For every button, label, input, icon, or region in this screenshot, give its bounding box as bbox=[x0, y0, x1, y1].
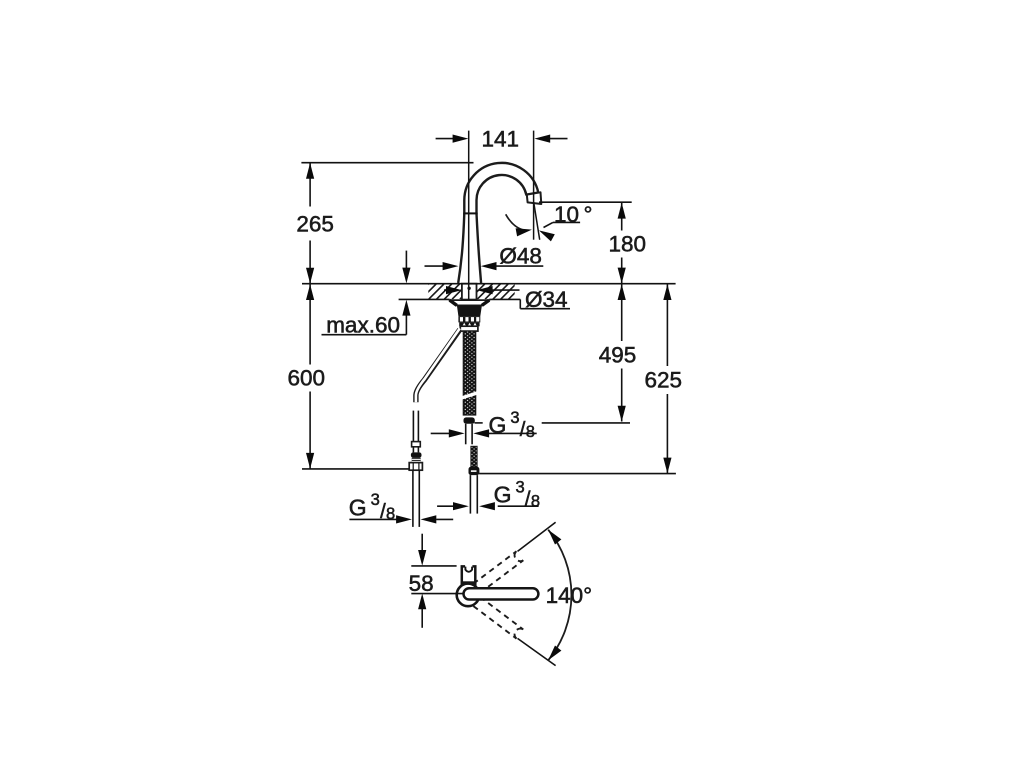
O48 dim arrows bbox=[425, 265, 444, 267]
10deg curved leader bbox=[506, 214, 523, 230]
58 dim bbox=[421, 534, 423, 551]
600 dim bbox=[309, 284, 311, 364]
svg-text:max.60: max.60 bbox=[326, 313, 400, 338]
mounting shank bbox=[462, 284, 477, 300]
svg-text:G: G bbox=[349, 494, 367, 520]
180 dim bbox=[621, 203, 623, 231]
265 dim bbox=[309, 164, 311, 207]
495 dim bbox=[621, 284, 623, 341]
left connector: compression nut bbox=[409, 463, 422, 471]
G3/8 upper dim bbox=[431, 432, 450, 434]
svg-text:3: 3 bbox=[371, 490, 380, 509]
second hose braid bbox=[471, 446, 477, 467]
valve body slot bbox=[465, 567, 472, 572]
hose break gap bbox=[462, 391, 478, 400]
mounting cone (black) bbox=[457, 305, 482, 316]
left connector: olive (black) bbox=[411, 452, 422, 457]
mounting nut checker band bbox=[458, 316, 480, 322]
escutcheon flange bbox=[450, 300, 490, 305]
second hose nipple tube bbox=[469, 475, 471, 513]
counter underside line right bbox=[489, 298, 520, 300]
625 dim bbox=[666, 284, 668, 366]
pivot circle bbox=[457, 584, 480, 607]
svg-text:3: 3 bbox=[515, 477, 524, 496]
svg-text:Ø48: Ø48 bbox=[499, 244, 542, 269]
O34 underline bbox=[520, 308, 570, 310]
10 deg tilted line bbox=[534, 203, 540, 240]
svg-text:3: 3 bbox=[510, 408, 519, 427]
faucet body cone bbox=[458, 214, 481, 283]
svg-text:180: 180 bbox=[609, 232, 647, 257]
svg-text:G: G bbox=[494, 482, 512, 508]
left connector: threaded section bbox=[412, 458, 421, 463]
O34 dim arrows bbox=[444, 289, 451, 291]
countertop hatch left of shank bbox=[413, 284, 531, 299]
left tube below break bbox=[412, 411, 414, 442]
10deg underline leader bbox=[553, 221, 580, 223]
G3/8 left dim bbox=[349, 518, 397, 520]
faucet spout gooseneck bbox=[464, 163, 538, 214]
counter underside line left bbox=[399, 298, 450, 300]
180 ext line at outlet level bbox=[539, 201, 632, 203]
spout/body joint line bbox=[463, 212, 477, 214]
141 dim line + arrows bbox=[436, 138, 454, 140]
countertop line bbox=[302, 283, 676, 285]
dashed lever position up bbox=[473, 551, 523, 593]
600 bottom ext line bbox=[302, 468, 409, 470]
svg-text:8: 8 bbox=[531, 492, 540, 511]
58 lower ext line bbox=[411, 593, 464, 595]
svg-text:8: 8 bbox=[526, 422, 535, 441]
svg-text:600: 600 bbox=[288, 366, 326, 391]
svg-text:Ø34: Ø34 bbox=[525, 287, 568, 312]
castellated band bbox=[459, 322, 479, 326]
valve body base band bbox=[461, 581, 476, 585]
aerator outlet bbox=[527, 192, 542, 204]
G3/8 right dim bbox=[437, 505, 453, 507]
58 ext lines bbox=[411, 565, 456, 567]
top extension line (spout top level) bbox=[301, 162, 473, 164]
svg-text:141: 141 bbox=[482, 127, 520, 152]
svg-text:625: 625 bbox=[645, 368, 683, 393]
hose nipple tube bbox=[465, 424, 467, 445]
extension line: faucet centerline bbox=[468, 131, 470, 300]
svg-text:265: 265 bbox=[296, 212, 334, 237]
495 ext line (hose connector level) bbox=[475, 422, 483, 424]
second hose connector bbox=[469, 467, 480, 475]
625 bottom ext line bbox=[479, 473, 676, 475]
dashed lever position down bbox=[473, 597, 523, 639]
angle ext line down bbox=[518, 638, 556, 665]
left connector: upper block bbox=[412, 442, 421, 447]
braided hose upper bbox=[463, 331, 476, 415]
svg-text:10 °: 10 ° bbox=[554, 202, 593, 227]
left tube upper curve bbox=[416, 330, 460, 403]
140deg arc bbox=[548, 530, 571, 661]
svg-text:140°: 140° bbox=[546, 583, 593, 608]
hose end connector bbox=[464, 417, 475, 423]
extension line: spout outlet vertical bbox=[533, 131, 535, 240]
svg-text:495: 495 bbox=[599, 342, 637, 367]
lever handle bbox=[464, 588, 539, 599]
svg-text:8: 8 bbox=[386, 504, 395, 523]
leader step to O34 bbox=[519, 299, 521, 308]
svg-text:58: 58 bbox=[409, 571, 434, 596]
angle ext line up bbox=[518, 522, 556, 551]
shank center dot bbox=[467, 287, 470, 290]
max.60 dim bbox=[405, 251, 407, 269]
left tube below connector bbox=[412, 470, 414, 527]
valve body side view bbox=[462, 567, 476, 587]
lower mounting nut bbox=[460, 326, 478, 331]
